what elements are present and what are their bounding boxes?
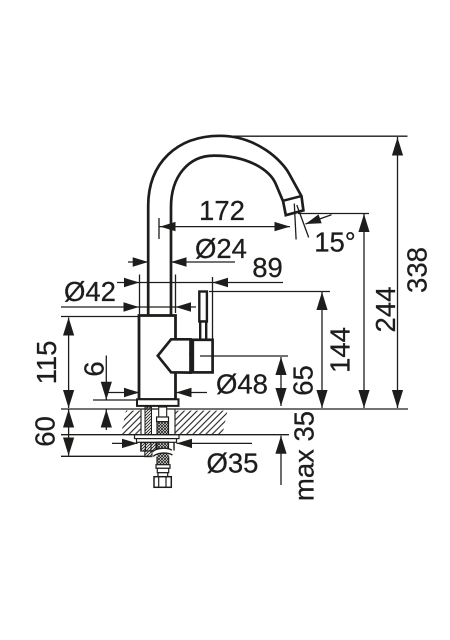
countertop hatch left xyxy=(121,411,141,435)
ext line 60 bottom xyxy=(61,455,150,457)
arrow 6 bottom xyxy=(101,410,112,428)
countertop hatch right xyxy=(175,411,228,435)
arrow 89 right xyxy=(213,278,229,287)
arrow max35 xyxy=(275,436,286,454)
arrow 172 right xyxy=(275,222,291,231)
tick 172 left xyxy=(158,218,160,239)
arrow 144 top xyxy=(316,292,327,310)
ext line flange top left xyxy=(93,399,137,401)
dim 6 line upper xyxy=(105,356,107,400)
ext line spout tip xyxy=(298,213,369,215)
washer rod left xyxy=(140,443,142,451)
ext line handle right up xyxy=(212,277,214,339)
dim Ø35 line left xyxy=(112,442,138,444)
arrow 338 bottom xyxy=(392,390,403,408)
handle mount wedge xyxy=(190,354,196,370)
handle knob xyxy=(193,340,213,373)
arrow 60 bottom xyxy=(63,438,74,456)
dim 89 line xyxy=(117,282,283,284)
arrow 244 bottom xyxy=(358,390,369,408)
washer plate xyxy=(135,435,180,439)
faucet body xyxy=(139,316,176,400)
handle stem xyxy=(199,292,207,322)
svg-text:Ø24: Ø24 xyxy=(195,233,247,264)
svg-text:Ø42: Ø42 xyxy=(64,276,116,307)
svg-text:15°: 15° xyxy=(314,227,356,258)
arrow 115 top xyxy=(63,318,74,336)
ext line apex top xyxy=(228,135,408,137)
dim 65 line xyxy=(280,357,282,406)
ext line knob mid xyxy=(200,355,288,357)
arrow 6 top xyxy=(101,382,112,400)
hose break xyxy=(153,448,173,456)
threaded stud xyxy=(145,407,152,435)
arrow Ø42 left xyxy=(124,302,140,311)
spout tube xyxy=(148,136,303,318)
dim Ø42 line xyxy=(61,306,196,308)
arrow 89 left xyxy=(124,278,140,287)
arrow Ø48 left xyxy=(124,388,140,397)
hose ferrule in hole xyxy=(157,417,169,422)
dim 115 line xyxy=(68,318,70,409)
dim Ø35 line right xyxy=(177,442,253,444)
arrow 65 bottom xyxy=(275,388,286,406)
svg-text:Ø35: Ø35 xyxy=(207,448,259,479)
dim Ø48 line left xyxy=(108,392,140,394)
svg-text:172: 172 xyxy=(199,195,245,226)
hose ferrule lower xyxy=(156,465,170,469)
svg-text:338: 338 xyxy=(402,247,433,293)
ext line body top left xyxy=(61,316,139,318)
hose neck in hole xyxy=(159,407,167,417)
15deg leg vertical xyxy=(294,204,296,240)
hose braid upper xyxy=(157,422,169,435)
15deg arrow tail xyxy=(306,215,332,224)
dim 60 line xyxy=(68,410,70,456)
dim 172 line xyxy=(159,226,290,228)
arrow 244 top xyxy=(358,214,369,232)
arrow Ø35 right xyxy=(177,439,193,448)
dim max35 line xyxy=(280,436,282,485)
stud tip xyxy=(145,451,152,457)
hose braid below washer xyxy=(157,442,169,452)
handle mount xyxy=(158,339,191,372)
svg-text:89: 89 xyxy=(252,252,283,283)
arrow 115 bottom xyxy=(63,390,74,408)
hose tube lower xyxy=(157,468,168,472)
dim 6 line lower xyxy=(105,410,107,431)
arrow Ø48 right xyxy=(176,388,192,397)
dim 144 line xyxy=(321,292,323,408)
svg-text:Ø48: Ø48 xyxy=(216,369,268,400)
svg-text:60: 60 xyxy=(30,416,61,447)
svg-text:65: 65 xyxy=(288,365,319,396)
mounting nut xyxy=(141,443,156,452)
arrow Ø35 left xyxy=(122,439,138,448)
svg-text:6: 6 xyxy=(79,361,110,376)
arrow Ø24 left xyxy=(133,257,149,266)
arrow 144 bottom xyxy=(316,390,327,408)
arrow 60 top xyxy=(63,410,74,428)
dim 244 line xyxy=(363,214,365,408)
15deg leg tilted xyxy=(297,205,309,238)
arrow Ø24 right xyxy=(171,257,187,266)
arrow 172 left xyxy=(160,222,176,231)
countertop surface line xyxy=(61,408,408,410)
arrow 15deg xyxy=(304,214,322,228)
dim Ø24 line right xyxy=(171,261,235,263)
hose braid lower xyxy=(157,454,169,465)
washer rod right xyxy=(173,443,175,451)
countertop bottom line xyxy=(61,434,289,436)
arrow 65 top xyxy=(275,357,286,375)
svg-text:max 35: max 35 xyxy=(289,411,320,501)
ext line body right up xyxy=(175,275,177,314)
arrow 338 top xyxy=(392,138,403,156)
arrow Ø42 right xyxy=(176,302,192,311)
ext line handle top xyxy=(209,291,330,293)
base flange xyxy=(137,399,179,406)
dim Ø48 line right xyxy=(176,392,207,394)
svg-text:144: 144 xyxy=(325,327,356,373)
svg-text:115: 115 xyxy=(31,341,62,385)
dim Ø24 line left xyxy=(128,261,148,263)
hose end nut xyxy=(154,477,171,488)
spout collar xyxy=(283,196,302,201)
dim 338 line xyxy=(397,137,399,408)
svg-text:244: 244 xyxy=(370,287,401,333)
ext line body left up xyxy=(139,275,141,315)
